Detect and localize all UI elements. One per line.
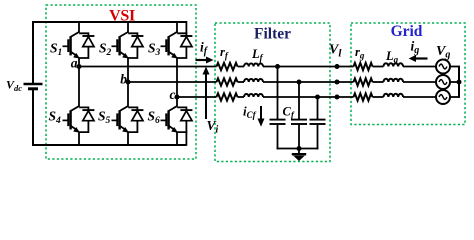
inductor Lg phase a: [384, 63, 404, 66]
wire phase a between rg and Lg: [373, 66, 384, 68]
battery Vdc short plate: [28, 87, 38, 90]
wire collector drop leg 3 upper: [176, 21, 178, 32]
resistor rf phase a: [217, 63, 238, 70]
inductor Lf phase c: [244, 94, 263, 97]
node capacitor tap phase a: [275, 64, 280, 69]
node a junction dot: [77, 64, 82, 69]
capacitor Cf phase a: [270, 120, 286, 124]
wire dc negative rail (battery to bottom bus): [33, 89, 186, 145]
battery Vdc long plate: [24, 83, 43, 85]
wire node to collector leg 2 lower: [127, 82, 129, 106]
transistor S6 (IGBT with anti-parallel diode): [161, 106, 193, 133]
wire phase c (source to neutral bus): [450, 96, 459, 98]
resistor rf phase c: [217, 93, 238, 100]
inductor Lg phase b: [384, 79, 404, 82]
resistor rg phase a: [354, 63, 373, 70]
wire phase b (filter to grid): [263, 81, 354, 83]
wire emitter to bottom bus leg 1: [78, 132, 80, 146]
wire phase a (source to neutral bus): [450, 66, 459, 68]
wire dc positive rail (battery to top bus): [33, 22, 186, 83]
node PCC dot phase b: [335, 80, 340, 85]
node capacitor tap phase b: [297, 80, 302, 85]
wire phase c between rg and Lg: [373, 96, 384, 98]
wire emitter to node leg 1 upper: [78, 57, 80, 66]
inductor Lg phase c: [384, 94, 404, 97]
wire phase a (filter to grid): [263, 66, 354, 68]
wire node to collector leg 1 lower: [78, 67, 80, 107]
wire phase b between rf and Lf: [238, 81, 245, 83]
wire node to collector leg 3 lower: [176, 97, 178, 106]
transistor S5 (IGBT with anti-parallel diode): [112, 106, 144, 133]
VSI enclosure dashed box: [46, 5, 196, 159]
wire emitter to node leg 3 upper: [176, 57, 178, 97]
transistor S3 (IGBT with anti-parallel diode): [161, 32, 193, 59]
source Vg phase b (AC source): [436, 75, 450, 89]
wire phase c (filter to grid): [263, 96, 354, 98]
node PCC dot phase a: [335, 64, 340, 69]
capacitor Cf phase c: [310, 120, 326, 124]
wire top bus right end drop: [185, 21, 187, 34]
wire phase a (Lg to source): [403, 66, 436, 68]
Filter enclosure dashed box: [215, 23, 330, 162]
arrow ig (pointing left): [416, 57, 428, 59]
wire capacitor branch lower phase c: [317, 124, 319, 149]
wire capacitor branch lower phase b: [298, 124, 300, 149]
arrow if (pointing right): [196, 59, 207, 61]
wire grid neutral bus: [458, 66, 460, 98]
wire emitter to bottom bus leg 2: [127, 132, 129, 146]
wire capacitor branch upper phase b: [298, 82, 300, 120]
arrow iCf (pointing down): [260, 106, 262, 119]
ground symbol: [292, 149, 306, 162]
node rail junction dot: [297, 146, 302, 151]
resistor rg phase c: [354, 93, 373, 100]
capacitor Cf phase b: [291, 120, 307, 124]
wire capacitor common rail: [277, 148, 319, 150]
transistor S1 (IGBT with anti-parallel diode): [63, 32, 95, 59]
wire emitter to bottom bus leg 3: [176, 132, 178, 146]
wire phase b between rg and Lg: [373, 81, 384, 83]
wire phase b line (VSI to filter): [128, 81, 217, 83]
wire phase b (source to neutral bus): [450, 81, 459, 83]
svg-text:a: a: [71, 56, 78, 71]
wire phase c (Lg to source): [403, 96, 436, 98]
source Vg phase a (AC source): [436, 60, 450, 74]
svg-text:Filter: Filter: [254, 25, 291, 42]
node PCC dot phase c: [335, 95, 340, 100]
Grid enclosure dashed box: [351, 23, 465, 125]
node b junction dot: [126, 80, 131, 85]
inductor Lf phase a: [244, 64, 263, 67]
wire emitter to node leg 2 upper: [127, 57, 129, 82]
svg-text:b: b: [120, 72, 127, 87]
node c junction dot: [175, 95, 180, 100]
wire phase b (Lg to source): [403, 81, 436, 83]
wire capacitor branch upper phase c: [317, 97, 319, 120]
arrow Vi (pointing up): [205, 73, 207, 119]
wire phase c between rf and Lf: [238, 96, 245, 98]
transistor S2 (IGBT with anti-parallel diode): [112, 32, 144, 59]
resistor rg phase b: [354, 78, 373, 85]
wire bottom bus right end rise: [185, 131, 187, 146]
node capacitor tap phase c: [315, 95, 320, 100]
wire phase c line (VSI to filter): [177, 96, 217, 98]
wire collector drop leg 2 upper: [127, 21, 129, 32]
wire capacitor branch lower phase a: [277, 124, 279, 149]
resistor rf phase b: [217, 78, 238, 85]
wire phase a between rf and Lf: [238, 66, 245, 68]
wire collector drop leg 1 upper: [78, 21, 80, 32]
source Vg phase c (AC source): [436, 90, 450, 104]
node grid neutral junction dot: [457, 80, 462, 85]
svg-text:Grid: Grid: [391, 23, 423, 40]
inductor Lf phase b: [244, 79, 263, 82]
wire phase a line (VSI to filter): [79, 66, 217, 68]
svg-text:c: c: [170, 87, 176, 102]
wire capacitor branch upper phase a: [277, 67, 279, 120]
transistor S4 (IGBT with anti-parallel diode): [63, 106, 95, 133]
